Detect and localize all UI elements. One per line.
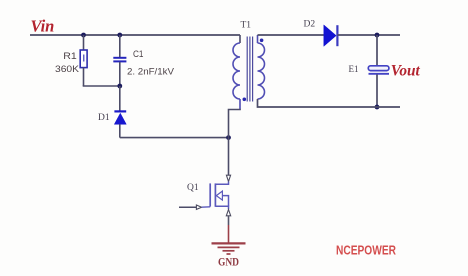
svg-text:R1: R1 (63, 51, 77, 62)
wire: R1 bottom lead (83, 68, 85, 86)
wire: primary bottom lead with jog (229, 99, 241, 138)
gate arrow (points right) (196, 205, 201, 209)
label 2.2nF/1kV (127, 67, 175, 78)
wire: D1 anode lead down (119, 124, 121, 137)
transformer T1 core (247, 37, 252, 102)
capacitor E1 (polarized) (368, 66, 389, 74)
transformer T1 primary winding (233, 43, 240, 99)
label Vout (391, 63, 421, 80)
svg-text:D1: D1 (98, 113, 110, 123)
drain arrow (points down) (226, 175, 230, 181)
node: junction bottom output rail / E1 (375, 105, 380, 110)
svg-text:360K: 360K (55, 64, 80, 75)
transistor Q1 (N-MOSFET) (210, 182, 228, 210)
diode D1 (114, 111, 126, 124)
node: junction clamp / primary / drain (226, 135, 231, 140)
svg-text:2. 2nF/1kV: 2. 2nF/1kV (127, 67, 175, 78)
wire: E1 bottom lead (376, 75, 378, 108)
wire: D2 cathode to output (337, 34, 400, 36)
label R1 (63, 51, 77, 62)
label D1 (98, 113, 110, 123)
transformer T1 secondary winding (258, 43, 265, 99)
svg-text:T1: T1 (241, 21, 252, 31)
wire: secondary top lead (257, 35, 259, 43)
diode D2 (324, 25, 338, 46)
wire: secondary top to D2 anode (258, 34, 325, 36)
source arrow (points up) (226, 210, 230, 216)
label GND (218, 255, 239, 269)
svg-text:E1: E1 (349, 64, 359, 74)
node: junction C1 / D1 (117, 84, 122, 89)
label Q1 (187, 183, 199, 193)
resistor R1 (80, 50, 87, 68)
label Vin (31, 17, 55, 36)
label 360K (55, 64, 80, 75)
label NCEPOWER (336, 244, 396, 258)
node: junction output rail / E1 top (375, 33, 380, 38)
wire: gate lead (179, 206, 196, 208)
svg-text:Q1: Q1 (187, 183, 199, 193)
wire: top input rail (30, 34, 240, 36)
node: secondary polarity dot (260, 39, 264, 43)
svg-text:Vout: Vout (391, 63, 421, 80)
wire: R1 top lead (83, 35, 85, 50)
label D2 (304, 20, 316, 30)
wire: gate arrow to gate bar (202, 206, 211, 208)
node: primary polarity dot (243, 98, 247, 102)
label C1 (133, 49, 144, 60)
wire: primary top lead (239, 35, 241, 43)
wire: D1 cathode lead (119, 86, 121, 111)
wire: C1 bottom lead (119, 62, 121, 86)
label E1 (349, 64, 359, 74)
wire: secondary bottom lead and bottom output rail (258, 99, 401, 107)
wire: E1 top lead (376, 35, 378, 66)
wire: source down to ground (228, 216, 230, 243)
node: junction Vin rail / C1 (117, 33, 122, 38)
svg-text:D2: D2 (304, 20, 316, 30)
svg-text:GND: GND (218, 255, 239, 269)
node: junction Vin rail / R1 (81, 33, 86, 38)
svg-text:Vin: Vin (31, 17, 55, 36)
svg-text:NCEPOWER: NCEPOWER (336, 244, 396, 258)
wire: drain vertical from junction (228, 138, 230, 175)
ground (212, 243, 246, 254)
wire: C1 top lead (119, 35, 121, 57)
svg-text:C1: C1 (133, 49, 144, 60)
label T1 (241, 21, 252, 31)
wire: clamp bottom horizontal to drain node (120, 137, 229, 139)
wire: R1 to C1 bottom link (83, 85, 120, 87)
capacitor C1 (113, 58, 126, 62)
